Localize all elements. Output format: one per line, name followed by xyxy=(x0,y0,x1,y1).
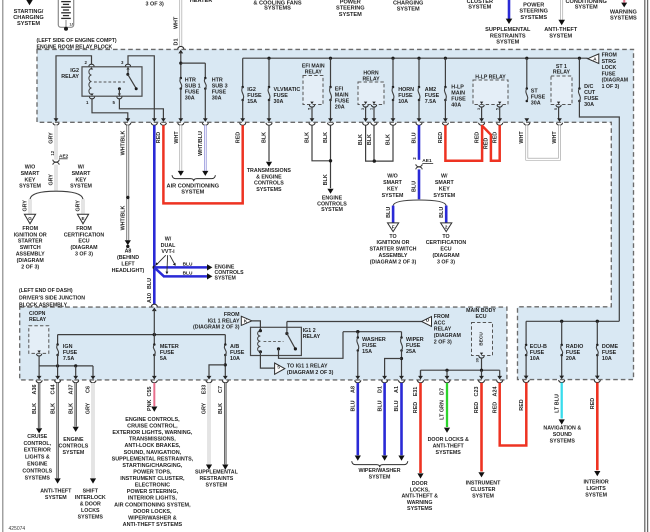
svg-text:A24: A24 xyxy=(492,387,498,397)
svg-text:3: 3 xyxy=(477,108,481,110)
svg-text:C23: C23 xyxy=(474,387,480,397)
svg-text:D1: D1 xyxy=(173,39,179,46)
svg-text:BLK: BLK xyxy=(358,134,364,145)
svg-text:C55: C55 xyxy=(147,387,153,397)
svg-text:BLK: BLK xyxy=(386,134,392,145)
svg-text:1: 1 xyxy=(370,108,374,110)
svg-text:BLU: BLU xyxy=(386,207,392,218)
svg-text:RED: RED xyxy=(590,398,596,409)
svg-text:S: S xyxy=(277,365,280,370)
svg-text:POWERSTEERINGSYSTEM: POWERSTEERINGSYSTEM xyxy=(336,0,365,18)
svg-text:A1: A1 xyxy=(394,386,400,393)
svg-text:HEATER: HEATER xyxy=(190,0,213,4)
svg-text:1J: 1J xyxy=(70,23,74,27)
svg-text:WHT/BLK: WHT/BLK xyxy=(120,130,126,155)
svg-text:BLU: BLU xyxy=(439,207,445,218)
svg-text:RED: RED xyxy=(474,402,480,413)
svg-text:BLU: BLU xyxy=(377,400,383,411)
svg-text:425074: 425074 xyxy=(9,526,26,532)
svg-text:BLU: BLU xyxy=(183,271,193,277)
svg-text:A10: A10 xyxy=(147,293,153,303)
svg-text:POWERSTEERINGSYSTEMS: POWERSTEERINGSYSTEMS xyxy=(519,3,548,21)
svg-text:LT BLU: LT BLU xyxy=(554,394,560,413)
svg-text:ENGINE ROOM RELAY BLOCK: ENGINE ROOM RELAY BLOCK xyxy=(37,44,113,50)
svg-text:HORNRELAY: HORNRELAY xyxy=(362,71,380,83)
svg-text:3: 3 xyxy=(361,108,365,110)
svg-text:BLU: BLU xyxy=(412,132,418,143)
svg-text:C44: C44 xyxy=(50,385,56,395)
svg-text:RED: RED xyxy=(413,402,419,413)
svg-text:BECU: BECU xyxy=(479,332,485,346)
svg-text:RED: RED xyxy=(519,399,525,410)
svg-text:30: 30 xyxy=(476,358,480,362)
svg-text:5: 5 xyxy=(554,108,558,110)
svg-text:BLOCK ASSEMBLY: BLOCK ASSEMBLY xyxy=(19,303,68,309)
svg-text:BLK: BLK xyxy=(32,403,38,414)
svg-text:A8: A8 xyxy=(351,386,357,393)
svg-text:5: 5 xyxy=(495,108,499,110)
svg-text:PNK: PNK xyxy=(147,400,153,411)
svg-text:TO IG1 1 RELAY(DIAGRAM 2 OF 3): TO IG1 1 RELAY(DIAGRAM 2 OF 3) xyxy=(287,364,334,377)
svg-text:BLK: BLK xyxy=(367,134,373,145)
svg-text:WHT: WHT xyxy=(552,131,558,144)
svg-text:BLK: BLK xyxy=(305,132,311,143)
svg-text:CHARGINGSYSTEM: CHARGINGSYSTEM xyxy=(393,1,423,13)
svg-text:H-LP RELAY: H-LP RELAY xyxy=(475,74,506,80)
svg-text:EFI MAINRELAY: EFI MAINRELAY xyxy=(302,63,325,75)
svg-text:RED: RED xyxy=(235,132,241,143)
svg-text:GRY: GRY xyxy=(76,200,82,212)
svg-text:GRY: GRY xyxy=(202,402,208,414)
svg-text:BLU: BLU xyxy=(394,400,400,411)
svg-text:WHT/BLU: WHT/BLU xyxy=(198,131,204,156)
svg-text:BLU: BLU xyxy=(183,262,193,268)
svg-text:WARNINGSYSTEMS: WARNINGSYSTEMS xyxy=(610,10,637,22)
svg-text:WHT/BLK: WHT/BLK xyxy=(120,205,126,230)
svg-text:GRY: GRY xyxy=(86,402,92,414)
svg-text:12: 12 xyxy=(50,150,55,155)
svg-text:(LEFT END OF DASH): (LEFT END OF DASH) xyxy=(19,288,73,294)
svg-text:D1: D1 xyxy=(377,386,383,393)
svg-text:BLK: BLK xyxy=(323,174,329,185)
svg-text:D7: D7 xyxy=(440,388,446,395)
svg-text:INTERIORLIGHTSSYSTEM: INTERIORLIGHTSSYSTEM xyxy=(583,479,608,498)
svg-text:CLUSTERSYSTEM: CLUSTERSYSTEM xyxy=(467,0,493,11)
svg-text:RED: RED xyxy=(492,402,498,413)
svg-text:5: 5 xyxy=(307,108,311,110)
svg-text:RED: RED xyxy=(484,138,490,149)
svg-text:3 OF 3): 3 OF 3) xyxy=(146,2,164,8)
svg-text:G: G xyxy=(28,216,32,221)
svg-text:WHT: WHT xyxy=(173,16,179,29)
svg-text:E: E xyxy=(81,216,84,221)
svg-text:BLU: BLU xyxy=(412,181,418,192)
svg-text:F: F xyxy=(392,225,395,230)
svg-text:A37: A37 xyxy=(68,385,74,395)
svg-text:E33: E33 xyxy=(202,385,208,395)
svg-text:WHT: WHT xyxy=(519,131,525,144)
svg-text:CRUISECONTROL,EXTERIORLIGHTS &: CRUISECONTROL,EXTERIORLIGHTS &ENGINECONT… xyxy=(22,434,52,481)
svg-text:C7: C7 xyxy=(218,386,224,393)
svg-text:LT GRN: LT GRN xyxy=(440,400,446,420)
svg-text:BLK: BLK xyxy=(262,132,268,143)
svg-text:BLU: BLU xyxy=(147,278,153,289)
svg-text:WHT: WHT xyxy=(174,131,180,144)
svg-text:RED: RED xyxy=(156,132,162,143)
svg-text:BLU: BLU xyxy=(351,400,357,411)
svg-text:GRY: GRY xyxy=(23,200,29,212)
svg-text:RED: RED xyxy=(438,132,444,143)
svg-text:C/OPNRELAY: C/OPNRELAY xyxy=(29,311,47,323)
svg-text:GRY: GRY xyxy=(49,174,55,186)
svg-text:BLK: BLK xyxy=(50,403,56,414)
svg-text:(LEFT SIDE OF ENGINE COMPT): (LEFT SIDE OF ENGINE COMPT) xyxy=(37,38,117,44)
svg-text:C6: C6 xyxy=(86,386,92,393)
svg-text:DRIVER’S SIDE JUNCTION: DRIVER’S SIDE JUNCTION xyxy=(19,295,85,301)
svg-text:RED: RED xyxy=(474,132,480,143)
svg-text:RED: RED xyxy=(492,132,498,143)
svg-text:A36: A36 xyxy=(32,385,38,395)
svg-text:E31: E31 xyxy=(413,387,419,397)
svg-text:STARTING/CHARGINGSYSTEM: STARTING/CHARGINGSYSTEM xyxy=(13,9,44,27)
svg-text:BLK: BLK xyxy=(68,403,74,414)
svg-text:GRY: GRY xyxy=(49,132,55,144)
svg-text:2: 2 xyxy=(445,225,448,230)
svg-text:BLK: BLK xyxy=(218,403,224,414)
svg-text:BLK: BLK xyxy=(323,132,329,143)
